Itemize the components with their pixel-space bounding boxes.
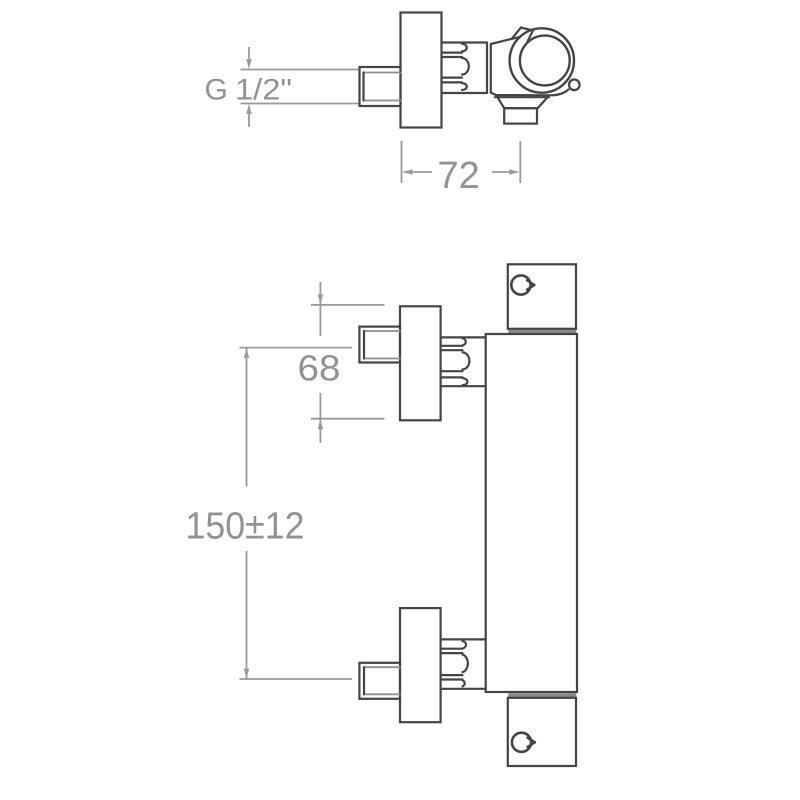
bottom bracket neck strip [508,693,576,697]
wall plate (top view) [401,13,442,128]
knob outer circle [510,28,574,92]
cartridge grooves [442,53,463,83]
72 left arrowhead [402,169,412,174]
150 dim line lower [246,551,248,679]
72 right arrowhead [509,169,519,174]
G1/2 arrow stems [248,47,250,127]
knob inner circle [520,36,570,86]
G1/2 bottom arrowhead [246,104,251,114]
bottom inlet nipple [359,663,400,699]
G1/2 extension lines [241,70,359,104]
cartridge cap arcs [462,44,469,90]
svg-text:G: G [205,74,228,107]
housing bottom edge [491,90,569,96]
top bracket hole [511,275,530,294]
outlet trapezoid [498,97,548,108]
safety tab [512,28,534,42]
bottom cartridge outer [441,639,486,688]
150 bottom arrowhead [244,669,249,679]
top hole point [527,280,535,289]
svg-text:68: 68 [298,348,341,389]
150 top arrowhead [244,348,249,358]
main body [486,334,577,692]
svg-text:72: 72 [438,155,480,197]
top cartridge outer [441,337,486,386]
cartridge outer (top view) [442,43,488,94]
top inlet nipple [359,327,400,363]
housing top slant [491,37,520,44]
68 dim line upper [319,282,321,336]
top cartridge grooves [441,346,463,378]
top bracket neck strip [508,330,576,333]
transition collar [490,44,492,93]
svg-text:1/2": 1/2" [235,74,292,107]
bottom wall bracket [508,698,576,766]
inlet nipple G1/2 (top view) [360,67,401,106]
68 bottom arrowhead [318,419,323,429]
outlet top line [495,96,549,98]
bottom cartridge caps [463,641,468,686]
svg-text:150±12: 150±12 [186,506,305,548]
bottom cartridge grooves [441,649,463,680]
bottom inlet flange [400,608,441,722]
nipple chamfer lines [364,73,401,101]
68 dim line lower [319,393,321,443]
bottom bracket hole [512,733,531,752]
top cartridge caps [463,338,470,385]
bottom nipple chamfer [364,667,400,694]
outlet spout [504,108,537,123]
68 extension lines [311,305,385,419]
150 dim line upper [246,348,248,487]
top nipple chamfer [364,331,400,359]
top inlet flange [400,306,441,420]
68 top arrowhead [318,294,323,304]
G1/2 top arrowhead [246,59,251,69]
72 dim line segments [404,171,518,173]
150 extension lines [239,348,352,679]
lever nub [569,80,580,91]
bottom hole point [528,738,536,747]
72 extension lines [402,141,521,183]
top wall bracket [508,264,576,329]
